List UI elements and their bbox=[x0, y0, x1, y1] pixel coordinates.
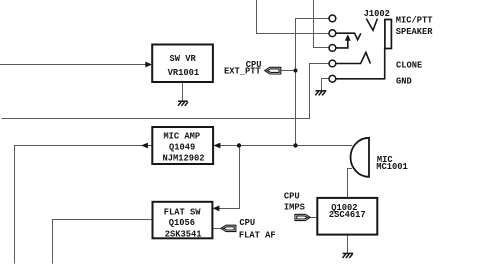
svg-text:Q1056: Q1056 bbox=[169, 218, 195, 228]
svg-text:J1002: J1002 bbox=[364, 9, 390, 19]
svg-text:2SK3541: 2SK3541 bbox=[165, 229, 202, 239]
svg-text:FLAT SW: FLAT SW bbox=[164, 207, 202, 217]
svg-text:EXT_PTT: EXT_PTT bbox=[224, 67, 261, 77]
svg-text:MIC/PTT: MIC/PTT bbox=[396, 15, 433, 25]
svg-text:MIC AMP: MIC AMP bbox=[163, 132, 200, 142]
svg-text:CPU: CPU bbox=[284, 192, 300, 202]
svg-text:IMPS: IMPS bbox=[284, 203, 305, 213]
svg-text:FLAT AF: FLAT AF bbox=[239, 230, 276, 240]
svg-text:SPEAKER: SPEAKER bbox=[396, 27, 434, 37]
svg-text:CPU: CPU bbox=[239, 218, 255, 228]
svg-text:Q1049: Q1049 bbox=[169, 143, 195, 153]
svg-text:NJM12902: NJM12902 bbox=[163, 153, 205, 163]
svg-text:MC1001: MC1001 bbox=[376, 162, 408, 172]
svg-text:2SC4617: 2SC4617 bbox=[329, 210, 366, 220]
svg-text:VR1001: VR1001 bbox=[168, 68, 200, 78]
svg-text:GND: GND bbox=[396, 77, 412, 87]
svg-text:SW VR: SW VR bbox=[170, 54, 197, 64]
svg-text:CLONE: CLONE bbox=[396, 61, 422, 71]
